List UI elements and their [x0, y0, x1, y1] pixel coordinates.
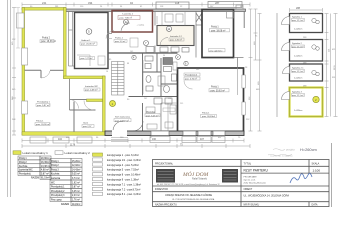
svg-text:Pokój 1: Pokój 1 — [36, 121, 44, 123]
svg-text:pow. 5,25 m²: pow. 5,25 m² — [146, 114, 159, 117]
svg-text:Pow. gosp.: Pow. gosp. — [51, 200, 63, 202]
svg-text:Lokal mieszkalny 1: Lokal mieszkalny 1 — [23, 151, 49, 155]
svg-text:kondygnacja 1 - pow. 6,13m²: kondygnacja 1 - pow. 6,13m² — [107, 154, 139, 157]
svg-text:pow. 4,68 m²: pow. 4,68 m² — [85, 89, 98, 92]
corridor walls upper middle — [108, 12, 155, 54]
svg-text:Sypialnia 2: Sypialnia 2 — [292, 43, 303, 45]
window sills below — [30, 137, 225, 144]
svg-text:Przedpokój 1: Przedpokój 1 — [51, 186, 65, 189]
table lokal2 — [50, 159, 82, 206]
svg-text:334: 334 — [88, 1, 93, 5]
label red room — [118, 14, 140, 20]
svg-text:20,90m²: 20,90m² — [41, 157, 50, 160]
rotated dim numbers — [12, 41, 336, 100]
svg-text:12,02m²: 12,02m² — [72, 164, 81, 167]
svg-text:UL. WOJEWÓDZKA 14, JELENIA GÓR: UL. WOJEWÓDZKA 14, JELENIA GÓRA — [244, 195, 290, 198]
right column dims — [258, 14, 338, 132]
svg-text:kondygnacja 7.2 - pow.8,73m²: kondygnacja 7.2 - pow.8,73m² — [107, 188, 141, 191]
svg-text:wg proj. wys. kondygnacji: wg proj. wys. kondygnacji — [270, 156, 293, 158]
svg-text:Pokój 2: Pokój 2 — [51, 165, 59, 167]
svg-text:przyjęto: przyjęto — [286, 149, 295, 152]
svg-text:NR RYSUNKU: NR RYSUNKU — [244, 203, 260, 206]
tiny dim specks central — [106, 51, 199, 105]
top dim numbers — [42, 1, 220, 5]
svg-text:tel. 601 234 567 / 75 764 10 2: tel. 601 234 567 / 75 764 10 28, e-mail:… — [157, 183, 220, 186]
svg-text:Pokój 1: Pokój 1 — [19, 158, 27, 160]
svg-text:pow. 20,90 m²: pow. 20,90 m² — [36, 123, 50, 126]
svg-text:14,43m²: 14,43m² — [72, 168, 81, 171]
label box corridor extra — [163, 108, 175, 111]
svg-text:160: 160 — [152, 138, 157, 141]
svg-text:288: 288 — [296, 7, 301, 10]
svg-text:16,36m²: 16,36m² — [41, 161, 50, 164]
svg-text:15,20m²: 15,20m² — [72, 160, 81, 163]
door arc red room exit — [106, 31, 114, 39]
fixtures bathroom block — [145, 56, 177, 104]
apartment1 yellow wall bathroom bottom — [87, 99, 103, 102]
svg-text:1,76 m²: 1,76 m² — [72, 199, 80, 202]
svg-text:pow. 30,63 m²: pow. 30,63 m² — [211, 89, 226, 92]
svg-text:Przedpokój 2: Przedpokój 2 — [51, 190, 65, 193]
extra circled markers — [176, 55, 181, 60]
svg-text:Łazienka WC: Łazienka WC — [85, 86, 98, 88]
svg-text:16: 16 — [106, 71, 108, 73]
room E top-right — [202, 10, 234, 58]
marker 11 — [166, 26, 171, 31]
svg-text:13,38 m²: 13,38 m² — [41, 165, 50, 168]
svg-text:kondygnacja 8.1 - pow. 3,23m²: kondygnacja 8.1 - pow. 3,23m² — [107, 193, 141, 196]
svg-text:RAZEM: RAZEM — [31, 177, 39, 180]
dim above right column — [290, 8, 323, 12]
svg-text:kondygnacja 4 - pow. 5,23m²: kondygnacja 4 - pow. 5,23m² — [107, 164, 139, 167]
svg-text:2,43 m²: 2,43 m² — [72, 194, 80, 197]
interior wall pokoj1 right — [73, 102, 75, 132]
svg-text:pow. 5,87 m²: pow. 5,87 m² — [37, 104, 50, 107]
svg-text:kondygnacja 9 - pow. 1,38m²: kondygnacja 9 - pow. 1,38m² — [107, 179, 139, 182]
svg-text:Kuchnia: Kuchnia — [19, 166, 28, 168]
label lazienka/wc — [84, 86, 100, 92]
interior wall lazienka left — [69, 79, 71, 110]
legend swatch lokal1 — [13, 151, 21, 155]
svg-text:pow. 7,96 m²: pow. 7,96 m² — [120, 17, 133, 20]
chimney box top-right — [236, 5, 243, 9]
svg-text:pow 2,97: pow 2,97 — [83, 126, 92, 128]
svg-text:114,9m²: 114,9m² — [72, 203, 80, 206]
roof protrusion right-mid — [208, 2, 242, 8]
svg-text:kondygnacja 5 - pow. 7,53m²: kondygnacja 5 - pow. 7,53m² — [107, 169, 139, 172]
bathroom block walls — [129, 53, 178, 131]
door arc pokoj1 — [84, 101, 94, 111]
bottom exterior wall — [105, 131, 244, 136]
svg-text:Pokój 1: Pokój 1 — [211, 27, 219, 29]
logo stamp left — [156, 169, 175, 183]
svg-text:Pralnia 1: Pralnia 1 — [115, 38, 124, 40]
svg-text:Przedpokój 3: Przedpokój 3 — [51, 194, 65, 197]
blue signature — [290, 173, 312, 183]
svg-text:1+420cm: 1+420cm — [294, 56, 303, 58]
building top wall — [66, 9, 246, 12]
svg-text:Pokój 2: Pokój 2 — [19, 162, 27, 164]
svg-text:pow. 1,75 m²: pow. 1,75 m² — [81, 57, 93, 60]
svg-text:Lokal mieszkalny 2: Lokal mieszkalny 2 — [65, 151, 91, 155]
room D1 — [157, 26, 194, 46]
svg-text:Łazienka/WC: Łazienka/WC — [19, 170, 33, 172]
right column room R4 yellow — [290, 88, 323, 117]
svg-text:407: 407 — [200, 138, 205, 141]
svg-text:118: 118 — [168, 98, 171, 100]
outer envelope line right — [234, 57, 244, 59]
svg-text:402: 402 — [58, 138, 63, 141]
svg-text:TYTUŁ: TYTUŁ — [244, 162, 252, 165]
svg-text:DATA: DATA — [312, 203, 318, 206]
left inner dim line — [16, 8, 20, 49]
svg-text:PROJEKTOWAŁ: PROJEKTOWAŁ — [155, 162, 174, 165]
svg-text:Pokój 1: Pokój 1 — [51, 161, 59, 163]
svg-text:11: 11 — [167, 27, 170, 31]
shaft right of D1 — [196, 12, 202, 58]
apartment1 yellow wall right upper — [64, 8, 67, 79]
svg-text:90: 90 — [163, 55, 165, 57]
gabinet room — [75, 13, 109, 69]
svg-text:pow. 12,1 m²: pow. 12,1 m² — [292, 70, 304, 73]
apartment1 yellow wall left — [22, 8, 25, 136]
extra central density — [143, 12, 185, 131]
right column gallery wall — [276, 13, 278, 117]
svg-text:pow. 30,63m²: pow. 30,63m² — [202, 115, 215, 118]
red room door arc — [121, 23, 130, 32]
svg-text:pow. 12,1 m²: pow. 12,1 m² — [292, 45, 304, 48]
svg-text:241: 241 — [42, 1, 47, 5]
apartment1 yellow wall top — [22, 8, 66, 11]
svg-text:WC: WC — [51, 182, 55, 184]
svg-text:SKALA: SKALA — [312, 162, 320, 165]
title block frame — [153, 160, 330, 207]
svg-text:Łazienka 1: Łazienka 1 — [123, 14, 134, 16]
interior wall garderoba — [70, 109, 96, 111]
svg-text:pow. 3,9 m²: pow. 3,9 m² — [115, 40, 126, 43]
label gabinet sub — [80, 57, 95, 61]
svg-text:1+420cm: 1+420cm — [294, 78, 303, 80]
svg-text:pow. 1,35 m²: pow. 1,35 m² — [170, 39, 182, 42]
svg-text:Pokój 1: Pokój 1 — [202, 113, 210, 115]
svg-text:145: 145 — [130, 51, 133, 53]
svg-text:Kuchnia: Kuchnia — [51, 174, 60, 176]
svg-text:pow. 20,06 m²: pow. 20,06 m² — [81, 43, 95, 46]
right column room R2 — [290, 40, 323, 62]
svg-text:pow. 12,1 m²: pow. 12,1 m² — [292, 19, 304, 22]
porch steps — [111, 138, 128, 142]
svg-text:255: 255 — [180, 103, 183, 105]
door arc przedpokoj — [70, 100, 79, 109]
svg-text:1+420cm: 1+420cm — [294, 110, 303, 112]
logo stamp right — [222, 169, 238, 183]
svg-text:3,45 m²: 3,45 m² — [72, 190, 80, 193]
svg-text:Przedpokój: Przedpokój — [19, 173, 31, 176]
svg-text:kondygnacja 7.1 - pow. 1,38m²: kondygnacja 7.1 - pow. 1,38m² — [107, 183, 141, 186]
svg-text:RAZEM: RAZEM — [61, 203, 69, 206]
page fold line left — [8, 0, 11, 197]
svg-text:9,35 m²: 9,35 m² — [72, 173, 80, 176]
svg-text:kondygnacja 8 - pow. 10,48m²: kondygnacja 8 - pow. 10,48m² — [107, 174, 141, 177]
svg-text:Sień wejściowa: Sień wejściowa — [115, 117, 131, 119]
label gabinet — [80, 39, 97, 46]
bottom dimension lines — [22, 139, 250, 149]
left dimension line — [12, 8, 16, 136]
svg-text:pow. 18,08 m²: pow. 18,08 m² — [211, 29, 226, 32]
interior wall pokoj2/przedpokoj — [25, 70, 64, 78]
svg-text:Pokój 2: Pokój 2 — [42, 37, 51, 40]
svg-text:pow. 5,76 m²: pow. 5,76 m² — [185, 78, 197, 81]
label pokoj2 — [40, 37, 56, 44]
svg-text:PROJEKTANT:: PROJEKTANT: — [244, 176, 258, 179]
D1 door arc — [160, 38, 168, 46]
label przedpokoj — [36, 101, 51, 108]
room E shaft box — [227, 12, 234, 19]
big room apt2 — [178, 68, 244, 132]
svg-text:Rafał Tokarski: Rafał Tokarski — [192, 178, 207, 181]
right column room R1 — [290, 14, 323, 33]
staircase — [112, 62, 125, 96]
apartment1 yellow wall mid horizontal — [64, 76, 106, 79]
svg-text:88: 88 — [127, 63, 129, 65]
svg-text:Gabinet 1: Gabinet 1 — [81, 39, 91, 42]
entrance gap — [112, 130, 127, 137]
right page border — [331, 143, 333, 207]
svg-text:mgr inż. arch.: mgr inż. arch. — [244, 180, 257, 182]
top dimension line — [22, 3, 250, 7]
bottom windows — [151, 131, 225, 136]
apartment1 yellow wall right lower — [103, 76, 106, 135]
upper corridor small details — [114, 38, 127, 43]
svg-text:262: 262 — [144, 98, 147, 100]
svg-text:INWESTOR: INWESTOR — [155, 188, 168, 191]
svg-text:61,19m²: 61,19m² — [41, 177, 50, 180]
svg-text:pow. gabinetu: pow. gabinetu — [210, 49, 224, 52]
svg-text:+ siatka: + siatka — [137, 24, 145, 27]
svg-text:1+420cm: 1+420cm — [294, 29, 303, 31]
svg-text:340: 340 — [196, 69, 199, 71]
labels przedpokoj apt2 — [184, 73, 200, 81]
gabinet inner detail lines — [77, 55, 105, 66]
gabinet marker circle 5 — [86, 29, 92, 35]
svg-text:118: 118 — [175, 1, 180, 5]
tiny dim numbers scattered — [12, 6, 336, 139]
yellow marker circle corridor — [110, 101, 116, 107]
svg-text:Łazienka: Łazienka — [51, 178, 61, 180]
svg-text:Przedpokój 4: Przedpokój 4 — [185, 74, 198, 77]
svg-text:1,62 m²: 1,62 m² — [72, 181, 80, 184]
label D1 — [169, 36, 184, 42]
red room — [112, 11, 153, 33]
svg-text:Sypialnia 1: Sypialnia 1 — [292, 17, 303, 19]
door arc big room — [184, 81, 193, 90]
corridor wall under top rooms — [108, 52, 178, 54]
red room marker 2a — [124, 20, 129, 25]
svg-text:5,87 m²: 5,87 m² — [72, 186, 80, 189]
label room E — [210, 27, 230, 33]
corridor vertical x161 lower — [160, 103, 162, 131]
svg-text:4,68 m²: 4,68 m² — [41, 169, 49, 172]
apartment1 yellow wall bottom — [22, 132, 105, 135]
right column gap dim numbers — [303, 37, 307, 88]
svg-text:5,87 m²: 5,87 m² — [41, 173, 49, 176]
dark fixture box — [163, 58, 173, 65]
label pokoj1 apt1 — [35, 121, 50, 127]
legend swatch lokal2 — [55, 151, 63, 155]
svg-text:Sypialnia 2.1: Sypialnia 2.1 — [292, 68, 304, 70]
svg-text:UL. PODGÓRZYŃSKA 58-500 JELENI: UL. PODGÓRZYŃSKA 58-500 JELENIA GÓRA — [172, 198, 215, 201]
dim verticals right of central block — [249, 9, 258, 131]
window boxes on left wall — [17, 13, 28, 114]
fixtures row top corridor — [146, 47, 189, 53]
label garderoba — [82, 122, 94, 129]
svg-text:RZUT PARTERU: RZUT PARTERU — [244, 169, 269, 173]
marker 7 — [144, 41, 149, 46]
legend kondygnacja swatches — [93, 153, 103, 196]
svg-text:Przedpokój 1: Przedpokój 1 — [37, 101, 51, 104]
roof protrusion left-mid — [156, 2, 189, 9]
corridor labels — [114, 117, 131, 123]
svg-text:1178: 1178 — [70, 144, 76, 147]
label pokoj1 apt2 — [209, 87, 229, 93]
yellow marker circle R4 — [313, 96, 319, 102]
svg-text:1:100: 1:100 — [313, 169, 321, 173]
svg-text:pow. 12,1 m²: pow. 12,1 m² — [292, 94, 304, 97]
svg-text:pow. 16,36 m²: pow. 16,36 m² — [41, 40, 56, 43]
table lokal1 — [18, 156, 51, 180]
svg-text:kondygnacja 1/1 - pow. 3,23m²: kondygnacja 1/1 - pow. 3,23m² — [107, 159, 141, 162]
svg-text:Pokój 1: Pokój 1 — [211, 87, 219, 89]
right column room R3 — [290, 64, 323, 81]
shaft between apt1 and gabinet — [69, 12, 75, 67]
label room E sub — [209, 49, 226, 53]
svg-text:Sypialnia 3: Sypialnia 3 — [292, 92, 303, 94]
interior wall lazienka bottom — [70, 99, 87, 101]
svg-text:3,74 m²: 3,74 m² — [72, 177, 80, 180]
svg-text:NAZWA PROJEKTU: NAZWA PROJEKTU — [155, 203, 177, 206]
svg-text:Gard.: Gard. — [83, 122, 89, 125]
svg-text:OBIEKT: OBIEKT — [244, 188, 253, 191]
svg-text:H=260cm: H=260cm — [300, 147, 317, 152]
svg-text:Zofia Tokarska-Matuszak: Zofia Tokarska-Matuszak — [244, 182, 266, 185]
svg-text:Łazienka 1.2: Łazienka 1.2 — [170, 36, 183, 38]
svg-text:Pokój 3: Pokój 3 — [51, 169, 59, 171]
entrance door arcs — [113, 121, 123, 131]
